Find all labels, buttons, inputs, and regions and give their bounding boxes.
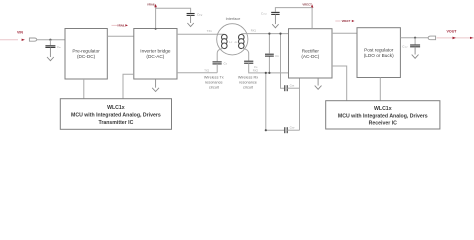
svg-text:Inverter bridge: Inverter bridge [140, 48, 171, 53]
svg-text:resonance: resonance [239, 81, 257, 85]
node junction on inverter top [155, 28, 157, 30]
svg-text:VRAIL: VRAIL [147, 2, 156, 6]
wire rectifier comm pin vertical [299, 78, 301, 130]
net VRECT vertical tap from rectifier top [311, 7, 313, 29]
block post regulator (LDO or Buck) [357, 28, 400, 78]
wire CM2 to rectifier comm pin [287, 129, 299, 131]
ground under inverter bridge [155, 79, 157, 88]
wire CM1 to rectifier comm pin [287, 87, 299, 89]
capacitor C_D [265, 54, 274, 56]
capacitor C_in [45, 46, 55, 48]
wire C_S Tx to TX2 [216, 64, 218, 73]
svg-text:Rectifier: Rectifier [302, 48, 320, 53]
svg-text:MCU with Integrated Analog, Dr: MCU with Integrated Analog, Drivers [338, 113, 428, 119]
svg-text:Pre-regulator: Pre-regulator [72, 48, 100, 53]
svg-text:Post regulator: Post regulator [364, 48, 394, 53]
wire post regulator output [400, 37, 428, 39]
capacitor C_M1 [285, 85, 287, 91]
ground under C_out [414, 47, 416, 55]
svg-text:VRECT: VRECT [342, 19, 351, 23]
inductor L_S Rx coil [239, 34, 245, 48]
wire inverter left pin down to WLC transmitter [123, 74, 134, 99]
wire TX1 inverter to Tx coil [177, 33, 224, 35]
node VRECT flow annotation (pink line, label, arrowhead) [335, 20, 340, 22]
svg-text:(AC-DC): (AC-DC) [301, 54, 319, 59]
svg-text:WLC1x: WLC1x [107, 105, 125, 111]
svg-text:Wireless Rx: Wireless Rx [238, 76, 258, 80]
wire Tx coil bottom lead [217, 48, 223, 61]
ground under C_tank [190, 15, 192, 23]
capacitor C_in lead [49, 40, 51, 46]
node junction CM1 tap [279, 33, 281, 35]
svg-text:Receiver IC: Receiver IC [369, 121, 398, 127]
wire C_S Rx to RX2 rail [249, 63, 289, 73]
block WLC1x receiver IC [326, 101, 440, 129]
wire VRAIL to tank capacitor [156, 8, 191, 13]
svg-text:TX2: TX2 [204, 68, 209, 72]
node junction CM2 tap [265, 72, 267, 74]
node junction Cin [49, 39, 51, 41]
node VIN flow arrowhead [22, 39, 25, 41]
capacitor C_M2 [285, 127, 287, 133]
net VRECT up arrowhead (red) [311, 4, 314, 7]
svg-text:WLC1x: WLC1x [374, 106, 392, 112]
capacitor C_rect [271, 12, 279, 14]
wire VIN to pre-regulator [37, 39, 65, 41]
wire RX1 Rx coil to rectifier [241, 33, 288, 35]
capacitor C_tank (bridge bypass) [187, 14, 195, 16]
svg-text:VRECT: VRECT [302, 3, 312, 7]
capacitor C_D parallel leads [268, 34, 270, 54]
block WLC1x transmitter IC [60, 99, 171, 130]
svg-text:Interface: Interface [226, 17, 241, 21]
capacitor C_S Tx series [213, 62, 222, 64]
svg-text:circuit: circuit [243, 86, 254, 90]
svg-text:(LDO or Buck): (LDO or Buck) [364, 53, 394, 58]
node VOUT red flow line [437, 37, 474, 39]
wire AC1 to CM1 (vertical drop) [281, 34, 285, 89]
node VOUT flow arrowhead [453, 37, 456, 40]
inductor L_P Tx coil [222, 34, 228, 48]
svg-text:(DC-AC): (DC-AC) [146, 54, 164, 59]
svg-text:TX1: TX1 [207, 29, 212, 33]
svg-text:Transmitter IC: Transmitter IC [98, 120, 133, 126]
wire VRECT to rect capacitor [275, 8, 312, 12]
svg-text:resonance: resonance [205, 81, 223, 85]
ground under C_in (arrow style) [49, 47, 51, 57]
wire pre-regulator bottom to WLC transmitter [83, 79, 85, 99]
svg-text:VRAIL: VRAIL [117, 24, 125, 28]
wire rectifier right pin to WLC receiver [332, 66, 347, 101]
wire pre-regulator to inverter bridge [107, 35, 134, 37]
svg-text:VIN: VIN [17, 31, 23, 35]
net VRAIL up arrowhead (red) [154, 4, 157, 7]
svg-text:RX2: RX2 [253, 69, 259, 73]
node junction CM2 corner [265, 129, 267, 131]
node junction C_D bottom [268, 72, 270, 74]
block pre-regulator (DC-DC) [65, 29, 107, 80]
wire post regulator bottom to WLC receiver [379, 78, 381, 101]
block inverter bridge (DC-AC) [134, 29, 177, 80]
wire TX2 inverter to Tx series capacitor [177, 72, 217, 74]
svg-text:RX1: RX1 [251, 29, 257, 33]
net VRAIL vertical tap from inverter top [155, 7, 157, 29]
wire AC2 to CM2 (vertical drop and bottom run) [266, 73, 284, 130]
connector J1 (input tag) [29, 38, 36, 41]
capacitor C_S Rx series [244, 61, 253, 63]
node VIN input red flow line [0, 39, 18, 41]
node junction C_D top [268, 33, 270, 35]
svg-text:VOUT: VOUT [447, 30, 458, 34]
connector J2 (output tag) [428, 36, 436, 40]
interface coupling circle [217, 24, 248, 55]
capacitor C_out [410, 45, 420, 47]
ground under C_rect [274, 14, 276, 24]
node VOUT flow arrowhead 2 [470, 37, 473, 39]
svg-text:circuit: circuit [209, 86, 220, 90]
svg-text:(DC-DC): (DC-DC) [77, 54, 96, 59]
svg-text:MCU with Integrated Analog, Dr: MCU with Integrated Analog, Drivers [71, 112, 161, 118]
block rectifier (AC-DC) [289, 29, 333, 78]
wire rectifier to post regulator [332, 32, 357, 34]
capacitor C_out lead [414, 38, 416, 45]
svg-text:Wireless Tx: Wireless Tx [204, 76, 224, 80]
wire Rx coil bottom lead [242, 48, 248, 60]
ground under rectifier [317, 78, 319, 86]
node VRAIL flow annotation (pink line, label, arrowhead) [112, 24, 118, 26]
node junction C_out [414, 37, 416, 39]
